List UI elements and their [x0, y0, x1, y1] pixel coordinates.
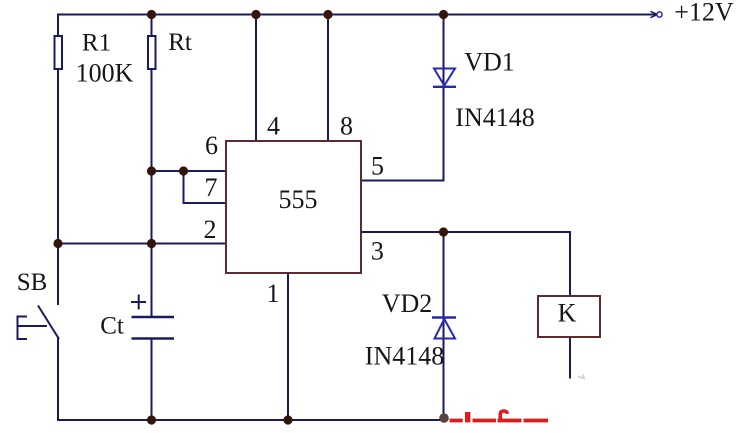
wire: relay K bottom vertical [569, 337, 571, 379]
node: top rail / pin 8 junction [323, 10, 332, 19]
diode VD2 [432, 318, 456, 339]
wire: relay K top vertical [569, 231, 571, 296]
wire: pin 3 horizontal [361, 231, 570, 233]
svg-text:R1: R1 [82, 30, 111, 57]
svg-text:2: 2 [204, 215, 217, 244]
svg-text:Rt: Rt [168, 29, 192, 56]
capacitor Ct top plate [132, 316, 175, 319]
node: pin 6 / Rt junction [147, 166, 156, 175]
label Ct polarity + [131, 295, 146, 310]
IC 555 box [226, 141, 361, 273]
node: bottom rail / VD2 end junction [439, 413, 449, 423]
svg-text:VD1: VD1 [464, 48, 515, 77]
svg-text:3: 3 [371, 237, 384, 266]
node: pin 6 / pin 7 branch junction [179, 166, 188, 175]
node: top rail / VD1 junction [439, 10, 448, 19]
wire: left rail lower segment [57, 338, 59, 421]
wire: +12V top rail [58, 14, 656, 16]
node: top rail / pin 4 junction [251, 10, 260, 19]
wire: bottom rail [57, 419, 448, 421]
relay K box [538, 296, 600, 337]
wire: Rt rail upper segment [151, 14, 153, 38]
wire: pin 6 horizontal [152, 170, 227, 172]
node: top rail / Rt junction [147, 10, 156, 19]
diode VD1 [433, 69, 456, 87]
svg-text:6: 6 [205, 131, 218, 160]
svg-text:1: 1 [267, 279, 280, 308]
svg-text:K: K [558, 299, 577, 328]
wire: pin 4 vertical [255, 14, 257, 141]
wire: pin 7 branch [184, 171, 227, 203]
wire: Rt rail down to Ct [151, 69, 153, 317]
svg-text:555: 555 [279, 185, 318, 214]
wire: Ct to bottom rail [151, 339, 153, 421]
svg-text:4: 4 [267, 112, 280, 141]
node: pin 2 / Rt junction [147, 239, 156, 248]
svg-text:7: 7 [205, 173, 218, 202]
faint gray mark near K lead [578, 375, 584, 379]
wire: VD1 branch vertical from rail to pin 5 [443, 14, 445, 181]
red watermark dashes [450, 412, 549, 422]
switch SB actuator bracket [18, 317, 48, 340]
terminal circle +12V [657, 12, 662, 17]
svg-text:5: 5 [371, 152, 384, 181]
node: pin 3 / VD2 junction [439, 227, 448, 236]
switch SB blade [38, 306, 59, 340]
wire: pin 8 vertical [327, 14, 329, 141]
svg-text:VD2: VD2 [382, 289, 433, 318]
terminal arrowhead at +12V [651, 11, 658, 17]
svg-text:+12V: +12V [674, 0, 734, 27]
wire: left rail middle segment [57, 69, 59, 305]
svg-text:Ct: Ct [100, 313, 124, 340]
node: bottom rail / Ct junction [147, 415, 156, 424]
wire: left rail upper segment [57, 14, 59, 38]
wire: pin 1 vertical [287, 273, 289, 420]
svg-text:8: 8 [340, 112, 353, 141]
svg-text:100K: 100K [76, 59, 134, 88]
wire: VD2 branch vertical from pin3 to bottom rail [443, 232, 445, 420]
resistor R1 body [55, 36, 63, 69]
resistor Rt body [148, 36, 156, 69]
node: pin 2 / left rail junction [53, 239, 62, 248]
node: bottom rail / pin 1 junction [283, 415, 292, 424]
wire: pin 2 horizontal [58, 243, 226, 245]
red watermark f-curl [500, 411, 507, 422]
svg-text:IN4148: IN4148 [365, 342, 444, 371]
capacitor Ct bottom plate [132, 337, 175, 340]
wire: pin 5 horizontal [361, 180, 445, 182]
svg-text:SB: SB [17, 269, 48, 296]
svg-text:IN4148: IN4148 [455, 103, 534, 132]
